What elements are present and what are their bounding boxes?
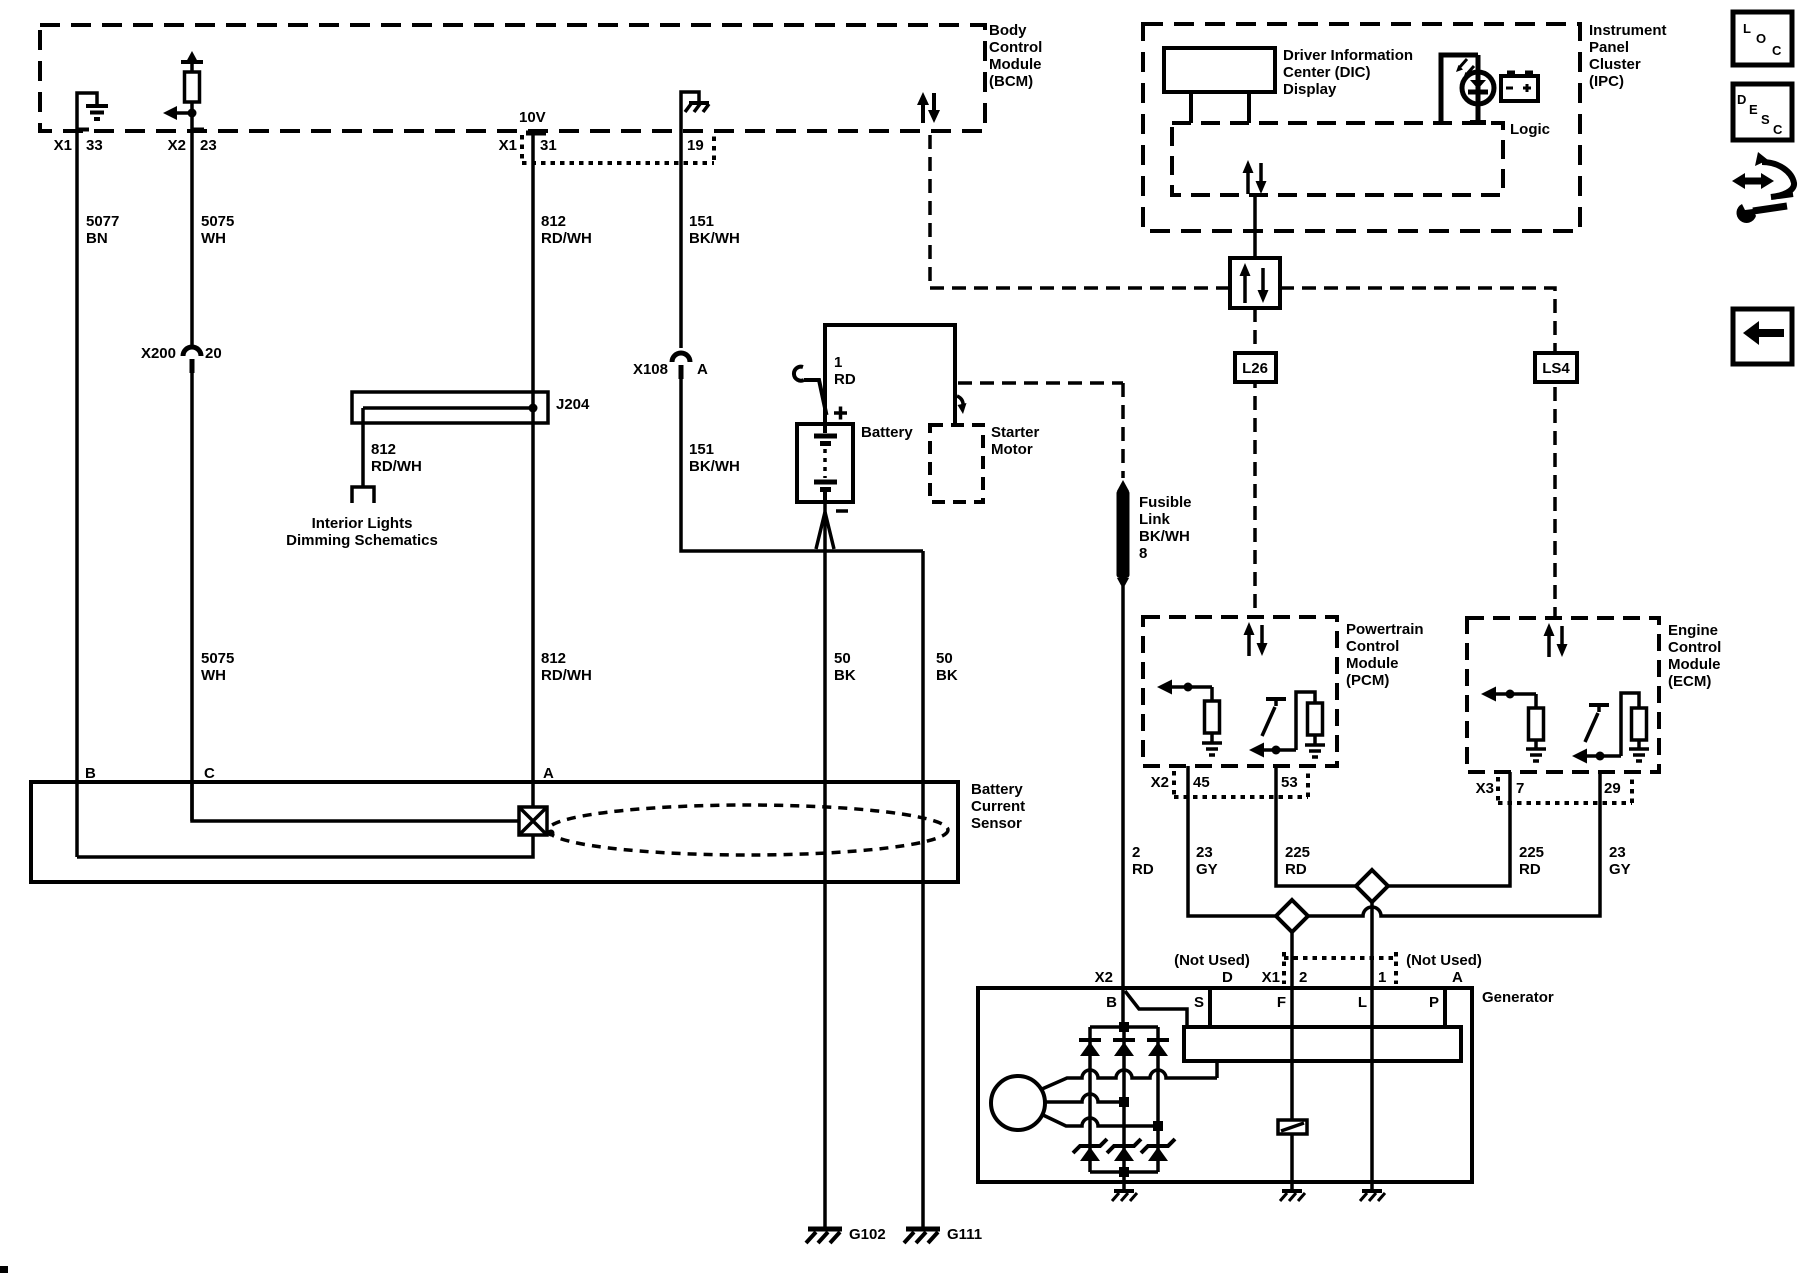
Engine Control Module (ECM) dashed box (1467, 618, 1659, 772)
fusible link BK/WH 8 (1117, 480, 1130, 589)
node X2 label (generator B pigtail) (1095, 969, 1113, 986)
generator terminal stubs S and P (1210, 988, 1445, 1027)
svg-text:Panel: Panel (1589, 39, 1629, 56)
rotor / stator winding circle (991, 1076, 1045, 1130)
node X3 7 29 pin labels (ECM) (1476, 780, 1621, 797)
label 225 RD left (1285, 844, 1310, 878)
svg-text:O: O (1756, 31, 1766, 46)
wire serial data from BCM (dashed) (930, 135, 1228, 288)
wire 50 BK left (battery negative to G102) (823, 502, 827, 1227)
resistor (ECM pin 29 pull-up) (1621, 693, 1647, 756)
rectifier bottom bus (1090, 1167, 1158, 1177)
svg-text:812: 812 (371, 441, 396, 458)
DIC display (Driver Information Center) (1164, 48, 1275, 123)
svg-text:BK/WH: BK/WH (689, 458, 740, 475)
svg-text:10V: 10V (519, 109, 546, 126)
node X1 2 1 pin labels (generator) (1262, 969, 1387, 986)
svg-text:53: 53 (1281, 774, 1298, 791)
svg-text:23: 23 (1609, 844, 1626, 861)
svg-text:Fusible: Fusible (1139, 494, 1192, 511)
serial data double arrow (ECM) (1544, 623, 1568, 657)
label G102 (849, 1226, 886, 1243)
stator phase winding 1 (with hops) (1042, 1070, 1217, 1089)
wire 23 GY (ECM 29 to generator net, with hop) (1307, 772, 1600, 916)
label 50 BK left (834, 650, 856, 684)
label (Not Used) A (1406, 952, 1482, 986)
svg-text:Sensor: Sensor (971, 815, 1022, 832)
svg-text:Module: Module (1346, 655, 1399, 672)
Powertrain Control Module (PCM) dashed box (1143, 617, 1337, 766)
wire 5075 WH upper (BCM X2-23 to X200) (190, 131, 194, 347)
data bus junction box with arrows (1230, 258, 1280, 308)
avalanche diode 2 (1107, 1139, 1141, 1161)
svg-text:(IPC): (IPC) (1589, 73, 1624, 90)
generator box (978, 988, 1472, 1182)
label G111 (947, 1226, 982, 1243)
rectifier top bus (1090, 1022, 1158, 1032)
svg-text:B: B (85, 765, 96, 782)
wire 50 BK right (junction to G111) (921, 551, 925, 1227)
svg-text:Display: Display (1283, 81, 1337, 98)
svg-text:Current: Current (971, 798, 1025, 815)
svg-text:225: 225 (1285, 844, 1310, 861)
svg-text:X200: X200 (141, 345, 176, 362)
svg-text:S: S (1194, 994, 1204, 1011)
svg-text:5075: 5075 (201, 213, 234, 230)
ground G102 (806, 1229, 842, 1243)
svg-text:Control: Control (989, 39, 1042, 56)
label 151 BK/WH upper (689, 213, 740, 247)
battery positive cable curl (794, 367, 827, 415)
svg-text:GY: GY (1196, 861, 1218, 878)
icon back-arrow box (1733, 309, 1792, 364)
svg-text:Motor: Motor (991, 441, 1033, 458)
wire 5075 WH lower (X200 to sensor C) (190, 373, 194, 821)
svg-text:A: A (697, 361, 708, 378)
label (Not Used) D (1174, 952, 1250, 986)
page corner mark (0, 1266, 8, 1273)
Instrument Panel Cluster (IPC) dashed box (1143, 24, 1580, 231)
svg-text:D: D (1737, 92, 1746, 107)
label 812 RD/WH lower (541, 650, 592, 684)
splice diamond lower (F terminal net) (1276, 900, 1308, 932)
icon LOC letters (1743, 21, 1782, 58)
svg-text:Link: Link (1139, 511, 1170, 528)
svg-text:151: 151 (689, 213, 714, 230)
wire 151 BK/WH lower (X108 to battery negative junction) (681, 379, 923, 551)
svg-text:RD: RD (1285, 861, 1307, 878)
node C label (sensor pin) (204, 765, 215, 782)
svg-text:X2: X2 (168, 137, 186, 154)
svg-text:Control: Control (1346, 638, 1399, 655)
svg-text:Logic: Logic (1510, 121, 1550, 138)
svg-text:5075: 5075 (201, 650, 234, 667)
label Battery Current Sensor (971, 781, 1025, 832)
svg-text:1: 1 (1378, 969, 1386, 986)
avalanche diode 1 (1073, 1139, 1107, 1161)
switch (PCM battery saver) (1262, 699, 1286, 736)
svg-text:F: F (1277, 994, 1286, 1011)
icon LOC box (1733, 12, 1792, 65)
svg-text:GY: GY (1609, 861, 1631, 878)
wire pin tick X1-33 (77, 128, 89, 132)
battery negative cable arrow (816, 512, 834, 549)
generator F lead (internal) (1290, 988, 1294, 1120)
battery telltale icon (IPC) (1501, 73, 1538, 101)
label Logic (1510, 121, 1550, 138)
svg-text:D: D (1222, 969, 1233, 986)
label Starter Motor (991, 424, 1040, 458)
svg-text:BK: BK (834, 667, 856, 684)
hall-effect sensing element (X box) (519, 807, 547, 835)
svg-text:(ECM): (ECM) (1668, 673, 1711, 690)
label 5077 BN (86, 213, 119, 247)
connector X3 dotted box (ECM pins 7/29) (1498, 777, 1632, 803)
svg-text:L26: L26 (1242, 360, 1268, 377)
PCM internal signal arrow (pin 45) (1157, 680, 1212, 695)
ground G111 (904, 1229, 940, 1243)
wire pin tick X2-23 (192, 128, 204, 132)
connector X1 dotted box (pins 31/19) (522, 135, 714, 163)
svg-text:8: 8 (1139, 545, 1147, 562)
generator terminal letters B S F L P (1106, 994, 1439, 1011)
label 23 GY right (1609, 844, 1631, 878)
serial data double arrow (IPC logic) (1243, 160, 1267, 194)
wire pin bar X1-31 (526, 131, 546, 136)
svg-text:Instrument: Instrument (1589, 22, 1667, 39)
wire 2 RD (fusible link to generator B) (1121, 586, 1125, 988)
svg-text:151: 151 (689, 441, 714, 458)
svg-text:Starter: Starter (991, 424, 1040, 441)
stator phase winding 3 (hop, crossing, junction) (1043, 1115, 1163, 1131)
serial data double arrow (BCM) (917, 92, 940, 123)
ECM module name label (1668, 622, 1721, 690)
battery (12V) (797, 424, 853, 502)
svg-text:2: 2 (1299, 969, 1307, 986)
signal arrow (BCM internal, X2-23) (163, 106, 197, 120)
wire starter feed to fusible link (dashed) (958, 383, 1123, 478)
svg-text:Driver Information: Driver Information (1283, 47, 1413, 64)
connector X2 dotted box (PCM pins 45/53) (1174, 771, 1308, 797)
field control element (1278, 1120, 1307, 1134)
battery B+ arrow into starter motor (957, 396, 967, 414)
node X108 A labels (633, 361, 708, 378)
svg-text:J204: J204 (556, 396, 590, 413)
svg-text:Module: Module (989, 56, 1042, 73)
node battery positive + label (834, 407, 847, 420)
wire 812 RD/WH (BCM X1-31 through J204 to sensor A) (531, 131, 535, 782)
wire data bus to PCM (dashed) (1253, 308, 1257, 617)
connector X108 (in-line) (672, 353, 690, 379)
label L26 (1242, 360, 1268, 377)
svg-text:Battery: Battery (971, 781, 1023, 798)
avalanche diode 3 (1141, 1139, 1175, 1161)
logic dashed box (IPC) (1172, 123, 1503, 195)
node X1 33 pin labels (54, 137, 103, 154)
ground (ECM resistor 7) (1526, 749, 1546, 761)
svg-text:Module: Module (1668, 656, 1721, 673)
svg-text:5077: 5077 (86, 213, 119, 230)
svg-text:BN: BN (86, 230, 108, 247)
label Fusible Link BK/WH 8 (1139, 494, 1192, 562)
starter motor dashed box (930, 425, 983, 502)
svg-text:X2: X2 (1095, 969, 1113, 986)
resistor (BCM internal, X2-23 pull-up) (185, 72, 200, 131)
splice diamond upper (L terminal net) (1356, 870, 1388, 902)
sensor internal wire element to B (77, 835, 533, 857)
switch (ECM battery saver) (1585, 705, 1609, 742)
svg-text:G111: G111 (947, 1226, 982, 1243)
svg-text:812: 812 (541, 213, 566, 230)
svg-text:(PCM): (PCM) (1346, 672, 1389, 689)
regulator sense lead to stator (1215, 1061, 1219, 1078)
sensor internal wire C to hall element (192, 782, 519, 821)
label 225 RD right (1519, 844, 1544, 878)
wire upper splice to generator L (1370, 902, 1374, 988)
svg-text:RD: RD (834, 371, 856, 388)
svg-text:RD/WH: RD/WH (541, 230, 592, 247)
svg-text:Generator: Generator (1482, 989, 1554, 1006)
svg-text:C: C (1772, 43, 1782, 58)
svg-text:1: 1 (834, 354, 842, 371)
ground (generator rectifier) (1112, 1191, 1137, 1201)
svg-text:31: 31 (540, 137, 557, 154)
ground (PCM resistor 53) (1305, 745, 1325, 757)
label 50 BK right (936, 650, 958, 684)
svg-text:RD/WH: RD/WH (541, 667, 592, 684)
label Battery (861, 424, 913, 441)
wire 5077 BN (BCM X1-33 to sensor B) (75, 131, 79, 857)
svg-text:E: E (1749, 102, 1758, 117)
svg-text:(BCM): (BCM) (989, 73, 1033, 90)
svg-text:33: 33 (86, 137, 103, 154)
node 10V label (519, 109, 546, 126)
svg-text:G102: G102 (849, 1226, 886, 1243)
node B label (sensor pin) (85, 765, 96, 782)
rectifier diode leg 3 (1147, 1027, 1169, 1172)
connector X1 dotted box (generator pins 2/1) (1284, 952, 1396, 984)
sensed conductor dashed ellipse (548, 805, 949, 855)
Body Control Module (BCM) dashed box (40, 25, 985, 131)
wire 23 GY (PCM 45 to generator net) (1188, 766, 1277, 916)
generator L lead (internal) (1370, 988, 1374, 1190)
ground (generator field) (1280, 1191, 1305, 1201)
wire 151 BK/WH upper (BCM 19 to X108) (679, 131, 683, 348)
BCM module name label (989, 22, 1042, 90)
svg-text:45: 45 (1193, 774, 1210, 791)
svg-text:Dimming Schematics: Dimming Schematics (286, 532, 438, 549)
battery current sensor box (31, 782, 958, 882)
svg-text:50: 50 (936, 650, 953, 667)
node A label (sensor pin) (543, 765, 554, 782)
node 19 pin label (687, 137, 704, 154)
svg-text:23: 23 (200, 137, 217, 154)
svg-text:(Not Used): (Not Used) (1406, 952, 1482, 969)
svg-text:L: L (1358, 994, 1367, 1011)
svg-text:A: A (1452, 969, 1463, 986)
svg-text:LS4: LS4 (1542, 360, 1570, 377)
svg-text:P: P (1429, 994, 1439, 1011)
svg-text:RD/WH: RD/WH (371, 458, 422, 475)
ground G (BCM internal at pin X1-33) (77, 93, 108, 131)
label 812 RD/WH (J204 branch) (371, 441, 422, 475)
node X1 31 pin labels (499, 137, 557, 154)
svg-text:L: L (1743, 21, 1751, 36)
splice pack J204 (352, 392, 548, 487)
svg-text:(Not Used): (Not Used) (1174, 952, 1250, 969)
IPC module name label (1589, 22, 1667, 90)
label J204 (556, 396, 590, 413)
node battery negative - label (836, 509, 848, 513)
svg-text:WH: WH (201, 230, 226, 247)
generator case ground lead (1122, 1172, 1126, 1190)
voltage regulator block (1184, 1027, 1461, 1061)
wire 225 RD (PCM 53 to upper splice) (1276, 766, 1357, 886)
PCM internal signal arrow (pin 53) (1249, 743, 1296, 758)
svg-text:RD: RD (1519, 861, 1541, 878)
svg-text:Battery: Battery (861, 424, 913, 441)
svg-text:X3: X3 (1476, 780, 1494, 797)
svg-text:B: B (1106, 994, 1117, 1011)
node X2 45 53 pin labels (PCM) (1151, 774, 1298, 791)
off-page fork to Interior Lights Dimming Schematics (352, 487, 374, 503)
net label box LS4 (1535, 353, 1577, 382)
label 812 RD/WH upper (541, 213, 592, 247)
svg-text:23: 23 (1196, 844, 1213, 861)
net label box L26 (1235, 353, 1276, 382)
battery feed symbol (BCM internal at pin X2-23) (181, 51, 203, 72)
icon wiring-repair (double arrow, outline, wrench) (1732, 152, 1794, 223)
resistor (PCM pin 53 pull-up) (1296, 692, 1323, 750)
ECM internal signal arrow (pin 29) (1572, 749, 1621, 764)
ground (generator L circuit) (1360, 1191, 1385, 1201)
svg-text:7: 7 (1516, 780, 1524, 797)
icon DESC letters (1737, 92, 1783, 137)
svg-text:225: 225 (1519, 844, 1544, 861)
ground (ECM resistor 29) (1629, 749, 1649, 761)
rectifier diode leg 1 (1079, 1027, 1101, 1172)
svg-text:Engine: Engine (1668, 622, 1718, 639)
svg-text:Center (DIC): Center (DIC) (1283, 64, 1371, 81)
node X200 20 labels (141, 345, 222, 362)
ambient light photo sensor (1441, 55, 1494, 123)
svg-text:X1: X1 (499, 137, 517, 154)
wire 225 RD (ECM 7 to upper splice) (1388, 772, 1510, 886)
sensor internal wire A to element (531, 782, 535, 807)
wire data bus to ECM (dashed) (1280, 288, 1555, 618)
resistor (PCM pin 45 pull-down) (1205, 687, 1220, 742)
label 23 GY left (1196, 844, 1218, 878)
resistor (ECM pin 7 pull-down) (1529, 694, 1544, 748)
label Interior Lights Dimming Schematics (286, 515, 438, 549)
label LS4 (1542, 360, 1570, 377)
svg-text:812: 812 (541, 650, 566, 667)
svg-text:X2: X2 (1151, 774, 1169, 791)
label 2 RD (1132, 844, 1154, 878)
svg-text:BK/WH: BK/WH (1139, 528, 1190, 545)
connector X200 (in-line) (183, 347, 201, 373)
field element ground lead (1290, 1134, 1294, 1190)
label 5075 WH upper (201, 213, 234, 247)
generator B lead (internal) (1121, 988, 1125, 1027)
label 151 BK/WH lower (689, 441, 740, 475)
svg-text:RD: RD (1132, 861, 1154, 878)
serial data double arrow (PCM) (1244, 622, 1268, 656)
label Generator (1482, 989, 1554, 1006)
svg-text:Interior Lights: Interior Lights (312, 515, 413, 532)
ground (BCM internal chassis ground at pin 19) (681, 92, 709, 131)
svg-text:Cluster: Cluster (1589, 56, 1641, 73)
svg-text:BK: BK (936, 667, 958, 684)
svg-text:X1: X1 (54, 137, 72, 154)
svg-text:50: 50 (834, 650, 851, 667)
wire lower splice to generator F (1290, 932, 1294, 988)
generator S sense tap from B (1125, 991, 1187, 1027)
label 1 RD (834, 354, 856, 388)
wire 1 RD (battery positive cable bracket) (825, 325, 955, 425)
ECM internal signal arrow (pin 7) (1481, 687, 1536, 702)
svg-text:Control: Control (1668, 639, 1721, 656)
svg-text:20: 20 (205, 345, 222, 362)
svg-text:C: C (204, 765, 215, 782)
svg-text:Body: Body (989, 22, 1027, 39)
PCM module name label (1346, 621, 1424, 689)
rectifier diode leg 2 (B center) (1113, 1027, 1135, 1172)
icon DESC box (1733, 84, 1792, 140)
svg-text:S: S (1761, 112, 1770, 127)
svg-text:C: C (1773, 122, 1783, 137)
node X2 23 pin labels (168, 137, 217, 154)
label 5075 WH lower (201, 650, 234, 684)
svg-text:Powertrain: Powertrain (1346, 621, 1424, 638)
svg-text:29: 29 (1604, 780, 1621, 797)
ground (PCM resistor 45) (1202, 743, 1222, 755)
svg-text:19: 19 (687, 137, 704, 154)
svg-text:BK/WH: BK/WH (689, 230, 740, 247)
svg-text:X1: X1 (1262, 969, 1280, 986)
label Driver Information Center (DIC) Display (1283, 47, 1413, 98)
svg-text:WH: WH (201, 667, 226, 684)
svg-text:2: 2 (1132, 844, 1140, 861)
svg-text:X108: X108 (633, 361, 668, 378)
wire IPC logic to data bus (1253, 195, 1257, 258)
stator phase winding 2 (hop then junction) (1045, 1094, 1129, 1107)
svg-text:A: A (543, 765, 554, 782)
